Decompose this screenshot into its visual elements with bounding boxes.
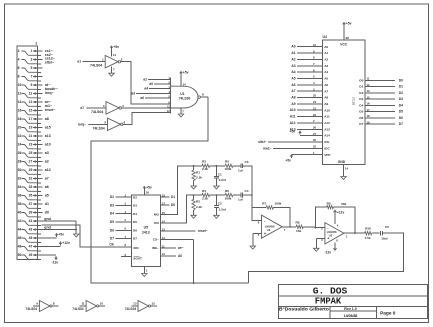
U4 address pin A1 [291,49,328,55]
connector X1 pin 43 [29,228,43,232]
U5 VCC pin 16 +5v [143,186,152,196]
U4 GND pin 14 ground [341,165,349,180]
U5 pin 13 reset~ [160,228,207,234]
wire C3 to mix node [243,166,252,195]
net label d1 [45,202,49,206]
svg-text:13: 13 [367,89,371,93]
svg-text:30: 30 [18,168,22,172]
U4 address pin A4 [291,68,328,74]
svg-text:9: 9 [30,83,32,87]
node RO junction R2 [193,194,195,196]
svg-text:U3: U3 [267,228,271,232]
svg-text:d0: d0 [45,211,49,215]
node MO junction R1 [193,165,195,167]
svg-text:a6: a6 [140,96,144,100]
svg-text:A7: A7 [324,89,328,93]
svg-text:+5v: +5v [346,22,352,26]
svg-text:28: 28 [346,36,350,40]
U5 XIN pin 8 [109,242,131,247]
U5 data pin D3 [110,202,137,208]
svg-text:18: 18 [162,194,166,198]
connector X1 pin 4 [18,58,41,64]
svg-text:D6: D6 [110,228,114,232]
connector X1 body [17,41,38,259]
svg-text:48: 48 [18,245,22,249]
svg-text:ma1~: ma1~ [263,146,271,150]
svg-text:A11: A11 [324,115,330,119]
svg-text:A2: A2 [324,58,328,62]
svg-text:A3: A3 [291,64,295,68]
svg-text:8: 8 [53,302,55,306]
svg-text:2: 2 [121,58,123,62]
wire gnd pin41 [42,217,77,229]
svg-text:D6: D6 [399,116,403,120]
svg-text:+12v: +12v [337,211,344,215]
svg-text:A1: A1 [291,51,295,55]
connector X1 pin 20 [18,126,41,132]
svg-text:74LS30: 74LS30 [179,96,191,100]
svg-text:18: 18 [18,117,22,121]
connector X1 pin 17 [29,117,43,121]
svg-text:12: 12 [162,236,166,240]
svg-text:1uf: 1uf [238,198,244,202]
resistor R8 15k [296,220,304,233]
svg-text:20: 20 [313,138,317,142]
svg-text:C5: C5 [385,225,389,229]
svg-text:A0: A0 [178,254,182,258]
svg-text:2: 2 [18,49,20,53]
svg-text:a0: a0 [149,82,153,86]
connector X1 pin 28 [18,160,41,166]
connector X1 pin 15 [29,109,43,113]
svg-text:A0: A0 [324,45,328,49]
svg-text:41: 41 [29,219,33,223]
connector X1 pin 18 [18,117,41,123]
connector X1 pin 21 [29,134,43,138]
connector X1 pin 9 [30,83,42,87]
title page [380,310,396,316]
U5 data pin D5 [110,218,137,224]
svg-text:a10: a10 [45,143,51,147]
fm chip U5 2413 body [131,195,160,266]
svg-text:74LS04: 74LS04 [125,307,136,311]
svg-text:28: 28 [18,160,22,164]
svg-text:13: 13 [162,228,166,232]
svg-text:+5v: +5v [113,45,119,49]
wire audio out [249,233,404,283]
svg-text:74LS04: 74LS04 [72,307,83,311]
svg-text:U4: U4 [323,35,327,39]
svg-text:26: 26 [18,151,22,155]
connector X1 pin 46 [18,236,41,242]
svg-text:C3: C3 [245,160,249,164]
node C1 junction [210,165,225,167]
connector X1 pin 41 [29,219,43,223]
svg-text:2: 2 [35,41,37,45]
svg-text:9: 9 [36,302,38,306]
connector X1 pin 14 [18,100,41,106]
svg-text:a8: a8 [45,117,49,121]
svg-text:G. DOS: G. DOS [313,285,348,296]
connector X1 pin 7 [30,75,42,79]
svg-text:O0: O0 [359,78,363,82]
U4 data pin O5 [359,108,403,114]
svg-text:A13: A13 [324,127,330,131]
connector X1 pin 6 [18,66,41,72]
U5 pin MO [154,166,194,217]
svg-text:RO: RO [154,221,159,225]
ground [74,230,79,238]
svg-text:iorq~: iorq~ [78,122,86,126]
svg-text:3: 3 [30,58,32,62]
svg-text:GND: GND [338,160,346,164]
svg-text:CK: CK [109,242,114,246]
svg-text:24: 24 [313,100,317,104]
svg-text:O2: O2 [359,91,363,95]
svg-text:42: 42 [18,219,22,223]
net label a2 [45,160,49,164]
svg-text:17: 17 [367,108,371,112]
svg-text:18: 18 [367,114,371,118]
svg-text:2.2k: 2.2k [202,167,208,171]
ground U3A noninverting [250,233,261,249]
U4 pin A14 +5v [290,130,331,138]
svg-text:A6: A6 [291,83,295,87]
wire R8 to U3B [303,226,325,229]
svg-text:A9: A9 [291,102,295,106]
net label a15 [45,126,51,130]
title block frame [279,285,428,319]
connector X1 pin 37 [29,202,43,206]
svg-text:56k: 56k [341,202,346,206]
U4 address pin A11 [290,113,330,119]
svg-text:D2: D2 [399,91,403,95]
wire U2B out to U1 [121,107,170,109]
svg-text:O1: O1 [359,85,363,89]
title author [279,307,330,312]
resistor R5 100k [225,160,233,171]
svg-text:d1: d1 [45,202,49,206]
supply +12v U3B pin 4 [333,210,344,224]
svg-text:10: 10 [162,252,166,256]
svg-text:22: 22 [313,145,317,149]
U5 data pin D7 [110,235,137,241]
svg-text:Rev 1.0: Rev 1.0 [344,307,356,311]
supply -12v U3B pin 8 [325,243,337,255]
svg-text:A10: A10 [324,108,330,112]
inverter U2A 74LS04 [77,45,122,76]
svg-text:XOUT: XOUT [133,257,142,261]
U4 pin VPP +5v [286,151,331,163]
svg-text:5: 5 [30,66,32,70]
svg-text:11: 11 [29,92,33,96]
U5 pin CS~ [153,236,194,242]
svg-text:13: 13 [29,100,33,104]
svg-text:74LS04: 74LS04 [90,64,102,68]
svg-text:22: 22 [18,134,22,138]
svg-text:74LS04: 74LS04 [26,307,37,311]
net label a12 [45,168,51,172]
svg-text:O5: O5 [359,110,363,114]
svg-text:XIN: XIN [133,246,139,250]
svg-text:3: 3 [103,104,105,108]
U4 data pin O0 [359,77,403,83]
net labels cs1~/cs2~/cs12~/sltsl~ [45,49,55,64]
svg-text:8: 8 [18,75,20,79]
svg-text:4: 4 [337,224,339,228]
svg-text:a1: a1 [77,60,81,64]
svg-text:47: 47 [29,245,33,249]
wire U2C out to U1 [123,113,171,125]
svg-text:36: 36 [18,194,22,198]
svg-text:CS~: CS~ [153,238,159,242]
U4 pin /OC ma1~ [263,145,330,151]
connector X1 pin 24 [18,143,41,149]
svg-text:+5v: +5v [146,186,152,190]
connector X1 pin 29 [29,168,43,172]
capacitor C2 3.3nf [214,195,227,211]
resistor R3 2.2k [194,160,210,171]
svg-text:11: 11 [162,244,165,248]
svg-text:2.2k: 2.2k [196,205,202,209]
capacitor C5 10uf [372,225,389,241]
svg-text:a3: a3 [131,91,135,95]
svg-text:6: 6 [124,120,126,124]
svg-text:-: - [327,225,329,230]
svg-text:a2: a2 [143,78,147,82]
svg-text:13: 13 [133,302,137,306]
connector X1 pin 50 [18,253,41,259]
U4 address pin A0 [291,43,328,49]
svg-text:A12: A12 [290,121,296,125]
svg-text:14: 14 [345,167,349,171]
connector X1 pin 8 [18,75,41,81]
U4 address pin A10 [290,106,331,112]
svg-text:3.3nf: 3.3nf [219,208,227,212]
svg-text:R2: R2 [196,200,200,204]
svg-text:24: 24 [18,143,22,147]
resistor R2 2.2k [192,195,202,210]
connector X1 pin 32 [18,177,41,183]
svg-text:R5: R5 [327,201,331,205]
svg-text:D1: D1 [399,85,403,89]
svg-text:+12v: +12v [62,241,70,245]
svg-text:10: 10 [100,302,104,306]
svg-text:21: 21 [29,134,33,138]
connector X1 pin 25 [29,151,43,155]
svg-text:27: 27 [313,132,317,136]
title date [344,314,358,318]
connector X1 pin 45 [29,236,43,240]
svg-text:11: 11 [367,77,370,81]
net label a13 [45,134,51,138]
svg-text:6: 6 [18,66,20,70]
connector X1 pin 39 [29,211,43,215]
svg-text:1uf: 1uf [238,168,244,172]
svg-text:7: 7 [284,228,286,232]
svg-text:10: 10 [18,83,22,87]
svg-text:a7: a7 [80,106,84,110]
svg-text:U3: U3 [329,234,333,238]
inverter U2B 74LS04 [80,102,124,115]
U4 VCC pin 28 +5v [343,22,352,40]
resistor R4 2.2k [194,189,210,200]
svg-text:15: 15 [367,95,371,99]
U5 data pin D2 [110,193,137,199]
connector X1 pin 33 [29,185,43,189]
U4 data pin O1 [359,83,403,89]
svg-text:2.2k: 2.2k [202,196,208,200]
svg-text:15: 15 [162,211,166,215]
svg-text:gnd: gnd [44,226,51,230]
svg-text:33: 33 [29,185,33,189]
connector X1 pin 23 [29,143,43,147]
svg-text:D3: D3 [133,204,137,208]
svg-text:-: - [264,218,266,223]
svg-text:29: 29 [29,168,33,172]
supply -12v pin49 [42,255,59,265]
svg-text:25: 25 [29,151,33,155]
op-amp U3B LM1458 [321,223,348,244]
svg-text:A1: A1 [324,51,328,55]
svg-text:R4: R4 [202,189,206,193]
U4 address pin A8 [291,94,328,100]
svg-text:2.2k: 2.2k [196,176,202,180]
connector X1 pin 48 [18,245,41,251]
U4 address pin A2 [291,56,328,62]
svg-text:wr~: wr~ [177,246,184,250]
U1 output pin 8 [200,92,208,97]
connector X1 pin 44 [18,228,41,234]
svg-text:7: 7 [182,110,184,114]
svg-text:R7: R7 [262,202,266,206]
svg-text:a15: a15 [45,126,51,130]
svg-text:8: 8 [202,92,204,96]
connector X1 pin 27 [29,160,43,164]
U5 data pin D4 [110,210,137,216]
svg-text:R1: R1 [196,170,200,174]
supply +12v pin47 [42,241,70,246]
svg-text:WE~: WE~ [152,246,159,250]
svg-text:C4: C4 [245,189,249,193]
connector X1 pin 19 [29,126,43,130]
svg-text:a4: a4 [144,87,148,91]
connector X1 pin 2 [18,49,41,55]
svg-text:+5v: +5v [286,158,292,162]
connector X1 pin 11 [29,92,43,96]
U5 pin WE~ wr~ [152,244,184,250]
svg-text:1: 1 [346,234,348,238]
node mix junction [243,194,253,196]
svg-text:A4: A4 [324,70,328,74]
svg-text:A4: A4 [291,70,295,74]
svg-text:23: 23 [29,143,33,147]
svg-text:14: 14 [18,100,22,104]
svg-text:reset~: reset~ [45,108,56,112]
svg-text:35: 35 [29,194,33,198]
svg-text:31: 31 [29,177,33,181]
U4 data pin O2 [359,89,403,95]
connector X1 pin 10 [18,83,41,89]
svg-text:50: 50 [18,253,22,257]
svg-text:D2: D2 [110,195,114,199]
U4 data pin O6 [359,114,403,120]
U1 ground pin7 [178,108,184,117]
svg-text:23: 23 [313,113,317,117]
svg-text:A10: A10 [290,108,296,112]
svg-text:O3: O3 [359,97,363,101]
svg-text:37: 37 [29,202,33,206]
svg-text:O6: O6 [359,116,363,120]
connector X1 pin 26 [18,151,41,157]
U4 address pin A5 [291,75,328,81]
op-amp U3A LM1458 [258,215,286,238]
connector X1 pin 36 [18,194,41,200]
net label a8 [45,117,49,121]
U4 address pin A12 [290,119,331,125]
svg-text:A11: A11 [290,115,296,119]
svg-text:19: 19 [367,120,371,124]
connector X1 pin 30 [18,168,41,174]
resistor R1 2.2k [192,166,202,181]
nand U1 74LS30 [171,78,201,114]
connector X1 pin 12 [18,92,41,98]
connector X1 pin 38 [18,202,41,208]
svg-text:D1: D1 [171,195,175,199]
wire U3B out [344,232,365,234]
net label a5 [45,194,49,198]
svg-text:D0: D0 [399,78,403,82]
capacitor C4 1uf [233,189,249,202]
svg-text:43: 43 [29,228,33,232]
wire U2A out to U1 [121,62,171,104]
svg-text:74LS04: 74LS04 [91,110,103,114]
capacitor C3 1uf [233,160,249,173]
svg-text:a12: a12 [45,168,51,172]
svg-text:40: 40 [18,211,22,215]
ground R2 [191,210,196,219]
svg-text:49: 49 [29,253,33,257]
ground U3B noninverting [314,239,325,252]
U5 data pin D6 [110,226,137,232]
svg-text:17: 17 [29,117,33,121]
svg-text:19: 19 [29,126,33,130]
svg-text:LM1458: LM1458 [327,230,337,234]
connector X1 pin 3 [30,58,42,62]
svg-text:7: 7 [30,75,32,79]
U1 input pin 12 [167,109,170,113]
U4 address pin A13 [290,125,331,131]
U1 input pin 4 [131,90,170,95]
svg-text:38: 38 [18,202,22,206]
svg-text:27128: 27128 [352,97,356,106]
U1 input pin 11 [167,105,170,109]
svg-text:C1: C1 [218,172,222,176]
U4 data pin O4 [359,102,403,108]
connector X1 pin 1 [30,49,42,53]
svg-text:44: 44 [18,228,22,232]
U4 pin /CE sltsl~ [258,138,329,144]
U1 input pin 6 [168,100,170,104]
svg-text:D4: D4 [133,212,137,216]
svg-text:D4: D4 [110,212,114,216]
svg-text:sltsl~: sltsl~ [45,60,54,64]
svg-text:1: 1 [30,49,32,53]
U5 pin RO [154,195,193,225]
resistor R7 100k feedback [252,202,290,227]
svg-text:A7: A7 [291,89,295,93]
svg-text:D7: D7 [399,122,403,126]
